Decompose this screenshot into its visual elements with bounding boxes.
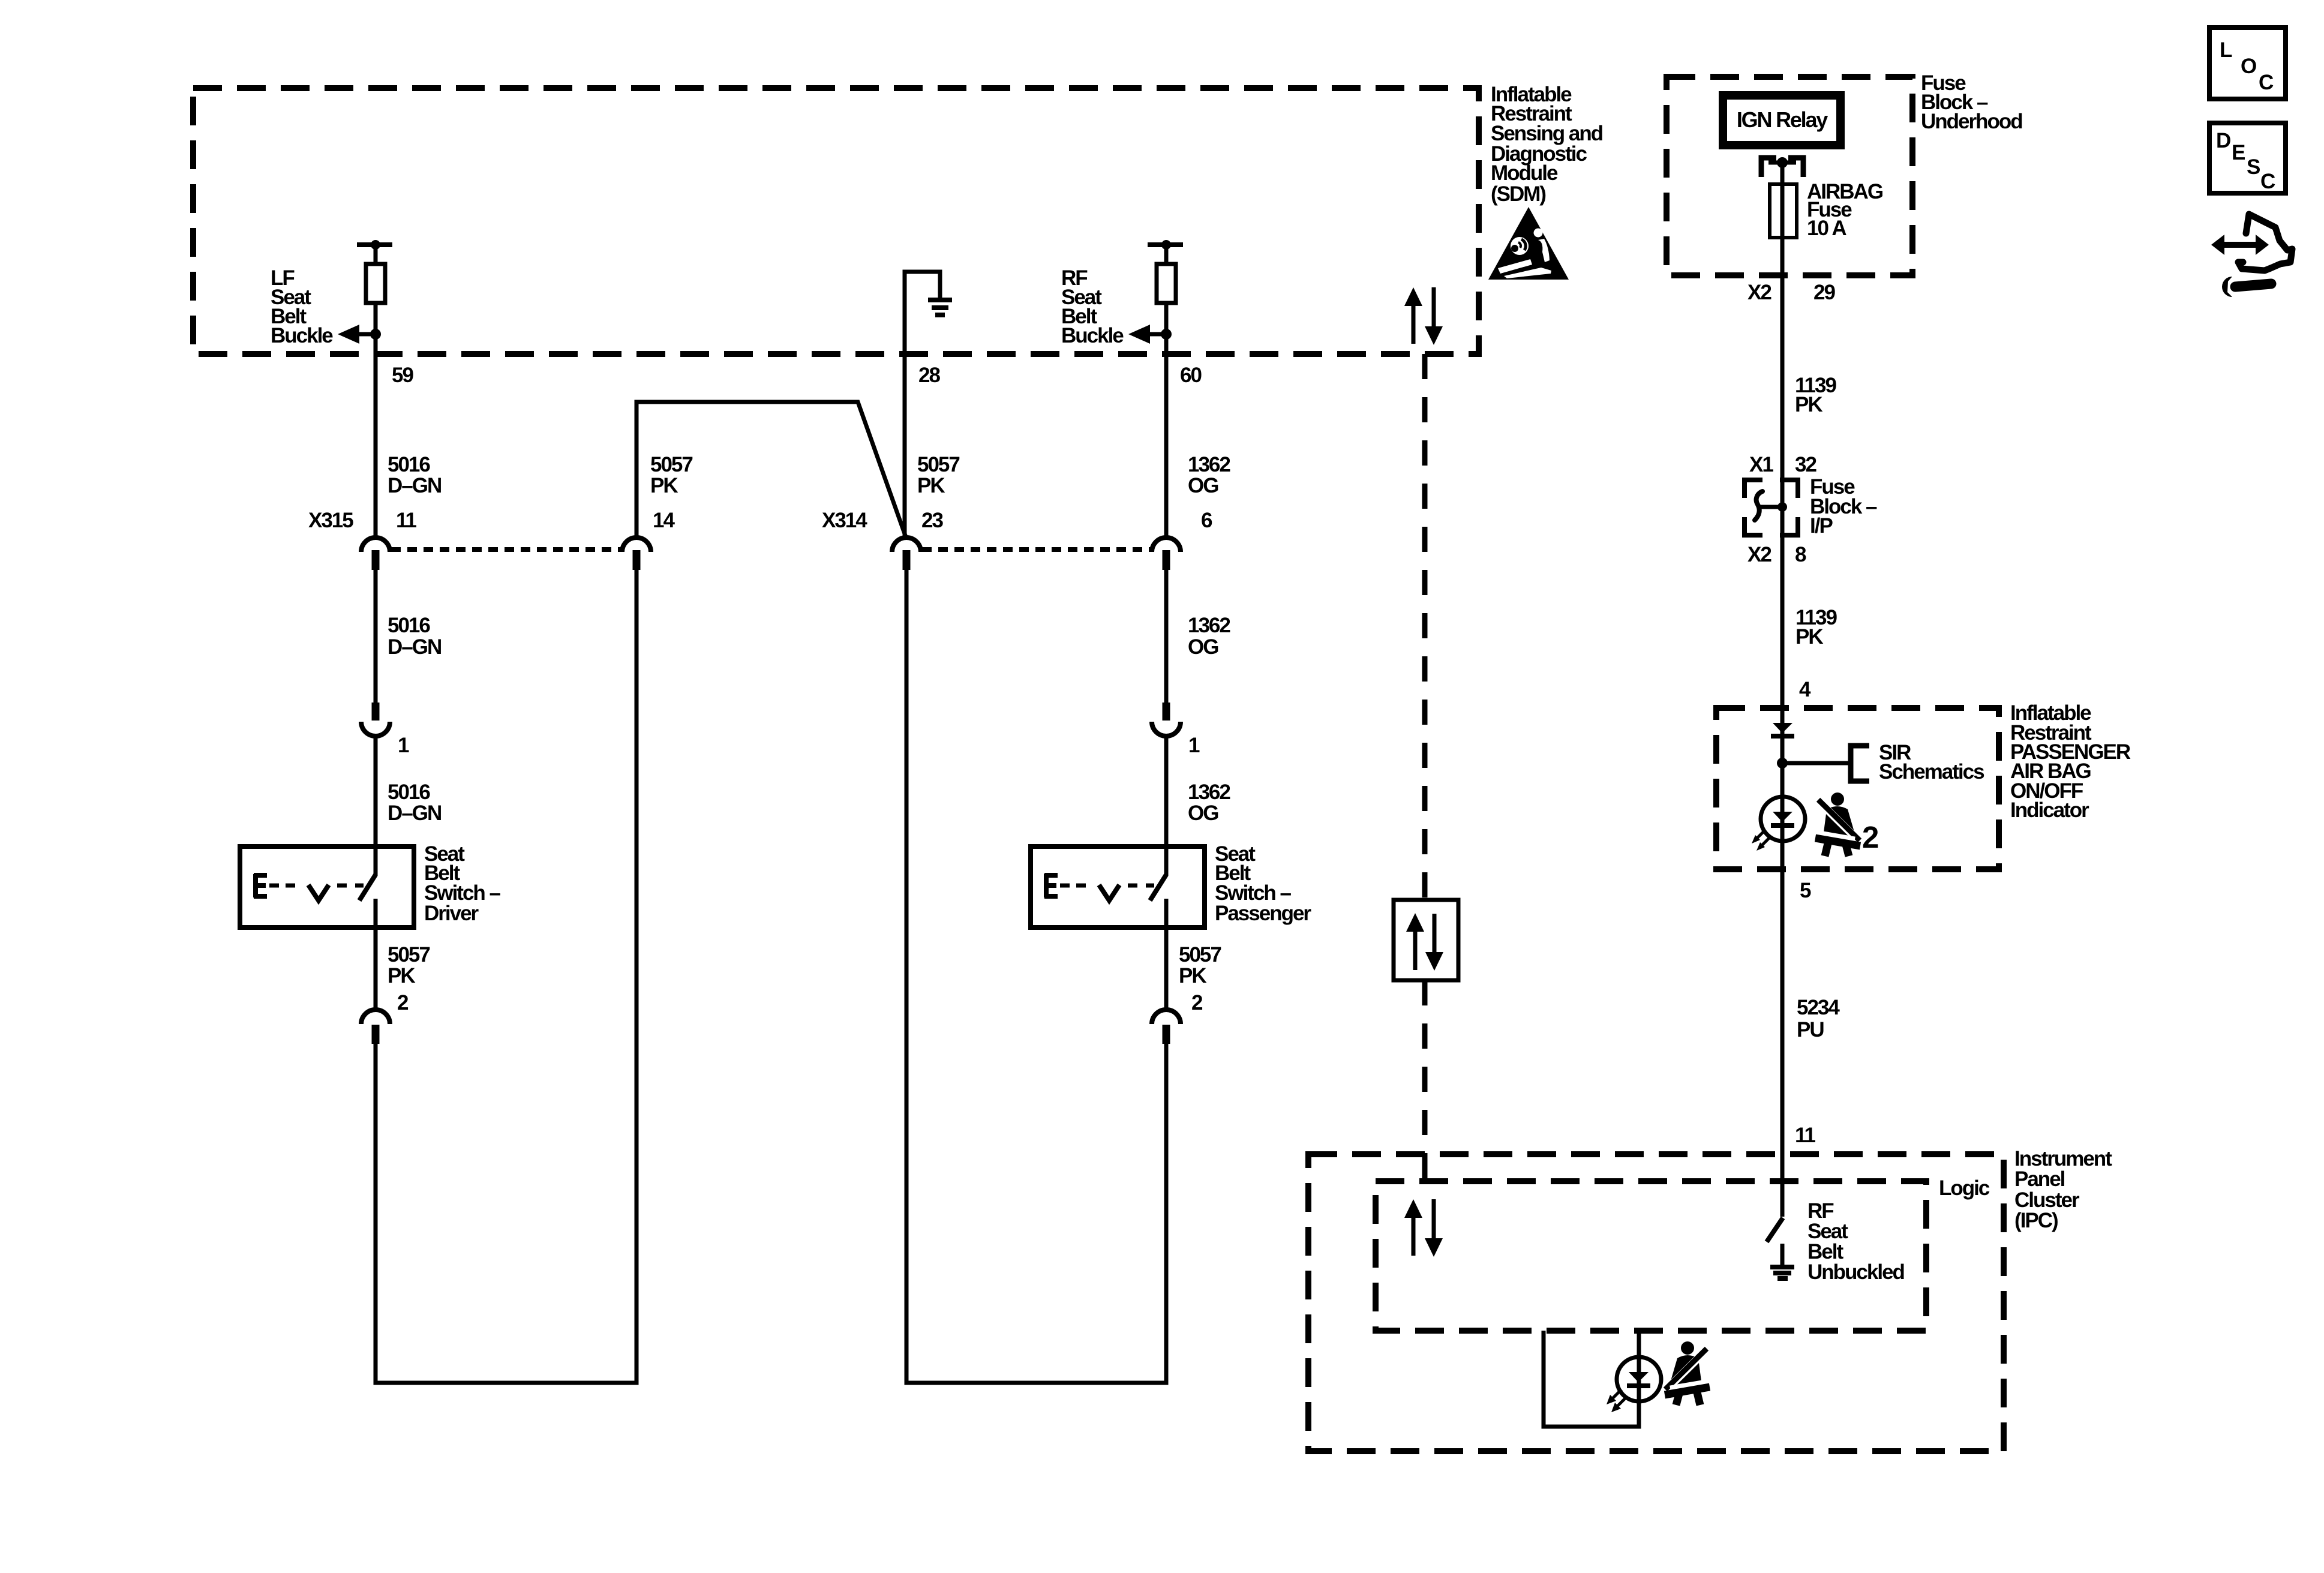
svg-text:28: 28 xyxy=(918,364,940,387)
svg-text:D–GN: D–GN xyxy=(388,635,441,659)
wire RF resistor to node xyxy=(1164,303,1169,334)
serial data box xyxy=(1394,900,1458,980)
switch driver top contact wire xyxy=(374,846,378,876)
connector pin 1 driver arc xyxy=(361,722,390,736)
RF seat belt unbuckled switch blade xyxy=(1767,1218,1783,1242)
svg-text:L: L xyxy=(2220,38,2232,62)
svg-text:PK: PK xyxy=(388,964,415,987)
relay socket brackets xyxy=(1761,158,1803,177)
svg-text:5: 5 xyxy=(1800,879,1811,902)
wire passenger return loop xyxy=(906,569,1166,1383)
svg-text:S: S xyxy=(2247,155,2260,179)
switch ground xyxy=(1780,1244,1785,1265)
connector pin 2 passenger arc xyxy=(1152,1010,1181,1024)
switch passenger V actuator xyxy=(1099,885,1119,900)
svg-text:Buckle: Buckle xyxy=(271,324,333,347)
svg-text:X2: X2 xyxy=(1747,281,1771,304)
serial data arrows in SDM xyxy=(1404,287,1443,345)
svg-text:11: 11 xyxy=(396,509,417,532)
svg-text:OG: OG xyxy=(1188,635,1218,659)
resistor LF seat belt buckle xyxy=(366,264,385,303)
fuse block IP symbol xyxy=(1744,480,1798,535)
svg-text:Passenger: Passenger xyxy=(1215,902,1311,925)
svg-text:5016: 5016 xyxy=(388,781,430,804)
svg-text:1362: 1362 xyxy=(1188,453,1230,476)
svg-text:5016: 5016 xyxy=(388,453,430,476)
node RF buckle xyxy=(1161,329,1172,340)
connector X315 pin 11 terminal stub xyxy=(372,550,380,570)
IPC seat belt lamp wiring xyxy=(1544,1331,1639,1427)
svg-text:10 A: 10 A xyxy=(1807,217,1846,240)
svg-text:5057: 5057 xyxy=(1179,943,1221,966)
connector X314 pin 23 terminal stub xyxy=(903,550,911,570)
wire pin1 to switch passenger xyxy=(1164,734,1169,846)
switch driver internal dashed link xyxy=(269,884,364,888)
IPC LED emission arrows xyxy=(1607,1389,1626,1412)
wire LF resistor to node xyxy=(374,303,378,334)
main feed wire xyxy=(1780,163,1785,1217)
seat belt switch passenger box xyxy=(1031,846,1205,927)
seat belt switch driver box xyxy=(240,846,414,927)
svg-text:X314: X314 xyxy=(822,509,867,532)
svg-text:6: 6 xyxy=(1201,509,1212,532)
svg-text:5234: 5234 xyxy=(1797,996,1840,1019)
connector pin 1 driver stub xyxy=(372,703,380,721)
svg-text:OG: OG xyxy=(1188,801,1218,825)
svg-text:29: 29 xyxy=(1813,281,1835,304)
svg-text:2: 2 xyxy=(1191,991,1203,1014)
connector X314 pin 23 arc xyxy=(892,538,921,552)
switch passenger E actuator symbol xyxy=(1044,874,1058,897)
switch passenger blade xyxy=(1150,875,1166,900)
connector pin 2 driver arc xyxy=(361,1010,390,1024)
wire switch driver to pin 2 xyxy=(374,927,378,1010)
svg-text:D–GN: D–GN xyxy=(388,474,441,497)
svg-text:60: 60 xyxy=(1180,364,1202,387)
svg-text:(SDM): (SDM) xyxy=(1491,182,1545,206)
wire SDM pin 60 down to X314 pin 6 xyxy=(1164,334,1169,538)
svg-text:1: 1 xyxy=(1188,734,1200,757)
wire buckle LF top xyxy=(374,245,378,264)
svg-text:2: 2 xyxy=(1862,820,1879,854)
svg-text:1: 1 xyxy=(398,734,409,757)
AIRBAG fuse 10A xyxy=(1770,184,1797,238)
svg-text:5057: 5057 xyxy=(917,453,959,476)
fuse block underhood dashed box xyxy=(1667,77,1912,275)
svg-text:PK: PK xyxy=(1795,625,1823,649)
svg-text:2: 2 xyxy=(397,991,409,1014)
svg-text:I/P: I/P xyxy=(1810,514,1833,538)
dashed serial data wire upper xyxy=(1422,354,1428,900)
relay output junction xyxy=(1768,161,1796,165)
resistor RF seat belt buckle xyxy=(1157,264,1176,303)
svg-text:1362: 1362 xyxy=(1188,781,1230,804)
svg-text:PK: PK xyxy=(917,474,945,497)
diode xyxy=(1773,723,1792,733)
connector pin 2 passenger stub xyxy=(1163,1025,1170,1044)
IPC LED xyxy=(1617,1357,1661,1401)
switch driver blade xyxy=(359,875,376,900)
svg-text:PK: PK xyxy=(1179,964,1206,987)
connector pin 2 driver stub xyxy=(372,1025,380,1044)
connector pin 1 passenger stub xyxy=(1163,703,1170,721)
connector X315 pin 11 arc xyxy=(361,538,390,552)
svg-text:D: D xyxy=(2216,129,2230,152)
switch passenger top contact wire xyxy=(1164,846,1169,876)
LF buckle arrow xyxy=(359,332,376,337)
RF seat belt buckle resistor top bar xyxy=(1148,242,1183,247)
svg-text:C: C xyxy=(2260,170,2275,193)
junction node to SIR xyxy=(1777,758,1788,769)
serial data arrows in IPC logic xyxy=(1404,1199,1443,1257)
connector X315 dashed line xyxy=(391,547,621,552)
dashed serial data wire lower xyxy=(1422,980,1428,1181)
svg-text:Schematics: Schematics xyxy=(1879,760,1984,784)
switch driver lower contact wire xyxy=(374,899,378,927)
svg-text:O: O xyxy=(2241,55,2256,78)
svg-text:1362: 1362 xyxy=(1188,614,1230,637)
svg-text:E: E xyxy=(2232,141,2245,164)
svg-text:59: 59 xyxy=(392,364,413,387)
instrument panel cluster dashed box xyxy=(1308,1154,2004,1451)
svg-text:Logic: Logic xyxy=(1939,1176,1990,1200)
connector X314 pin 6 terminal stub xyxy=(1163,550,1170,570)
wire switch passenger to pin 2 xyxy=(1164,927,1169,1010)
svg-text:(IPC): (IPC) xyxy=(2014,1209,2058,1232)
svg-text:X2: X2 xyxy=(1747,543,1771,566)
switch driver E actuator symbol xyxy=(254,874,267,897)
svg-text:Unbuckled: Unbuckled xyxy=(1807,1260,1905,1284)
DESC icon xyxy=(2209,123,2286,193)
connector X314 pin 6 arc xyxy=(1152,538,1181,552)
logic dashed box xyxy=(1376,1181,1926,1331)
svg-text:Buckle: Buckle xyxy=(1061,324,1124,347)
node LF buckle xyxy=(370,329,381,340)
SDM module dashed box xyxy=(193,88,1479,354)
SDM internal ground xyxy=(905,272,940,539)
passenger air bag indicator dashed box xyxy=(1716,708,1999,869)
connector X315 pin 14 terminal stub xyxy=(633,550,641,570)
svg-text:5057: 5057 xyxy=(388,943,430,966)
svg-text:OG: OG xyxy=(1188,474,1218,497)
svg-text:32: 32 xyxy=(1795,453,1816,476)
svg-text:PK: PK xyxy=(650,474,678,497)
LED emission arrows xyxy=(1752,831,1769,851)
svg-text:Indicator: Indicator xyxy=(2010,798,2089,822)
SIR schematics bracket xyxy=(1851,746,1869,781)
svg-text:Underhood: Underhood xyxy=(1921,110,2022,133)
seat belt icon passenger indicator xyxy=(1815,792,1860,856)
svg-text:Driver: Driver xyxy=(424,902,479,925)
svg-text:8: 8 xyxy=(1795,543,1806,566)
switch passenger internal dashed link xyxy=(1060,884,1154,888)
switch passenger lower contact wire xyxy=(1164,899,1169,927)
svg-text:11: 11 xyxy=(1795,1124,1816,1147)
connector X315 pin 14 arc xyxy=(622,538,651,552)
LOC icon xyxy=(2209,28,2286,99)
connector X314 dashed line xyxy=(922,547,1151,552)
svg-text:C: C xyxy=(2259,71,2274,94)
seat belt icon IPC xyxy=(1665,1341,1710,1405)
SRS warning triangle icon xyxy=(1488,207,1569,280)
svg-text:Module: Module xyxy=(1491,161,1558,185)
wire pin1 to switch driver xyxy=(374,734,378,846)
LED indicator xyxy=(1761,797,1805,841)
switch driver V actuator xyxy=(308,885,329,900)
RF buckle top node dot xyxy=(1161,240,1171,250)
wire driver return loop xyxy=(376,569,636,1383)
svg-text:IGN Relay: IGN Relay xyxy=(1737,107,1828,132)
svg-text:X1: X1 xyxy=(1749,453,1773,476)
serial data arrows in box xyxy=(1406,913,1443,971)
svg-text:4: 4 xyxy=(1799,678,1811,701)
svg-text:D–GN: D–GN xyxy=(388,801,441,825)
data link connector icon xyxy=(2211,214,2292,297)
svg-text:14: 14 xyxy=(653,509,675,532)
wire from pin 14 up and over to X314 junction xyxy=(636,402,906,539)
RF buckle arrow xyxy=(1149,332,1166,337)
LF seat belt buckle resistor top bar xyxy=(357,242,392,247)
svg-text:Panel: Panel xyxy=(2014,1167,2065,1191)
wire buckle RF top xyxy=(1164,245,1169,264)
wire SDM pin 59 down to X315 xyxy=(374,334,378,538)
svg-text:X315: X315 xyxy=(308,509,353,532)
LF buckle top node dot xyxy=(371,240,380,250)
wire LF X315 to switch pin 1 xyxy=(374,569,378,704)
wire RF X314 to switch pin 1 xyxy=(1164,569,1169,704)
svg-text:PK: PK xyxy=(1795,393,1822,416)
IGN Relay box xyxy=(1723,95,1840,145)
svg-text:PU: PU xyxy=(1797,1018,1824,1041)
svg-text:5016: 5016 xyxy=(388,614,430,637)
svg-text:5057: 5057 xyxy=(650,453,692,476)
connector pin 1 passenger arc xyxy=(1152,722,1181,736)
svg-text:23: 23 xyxy=(921,509,943,532)
